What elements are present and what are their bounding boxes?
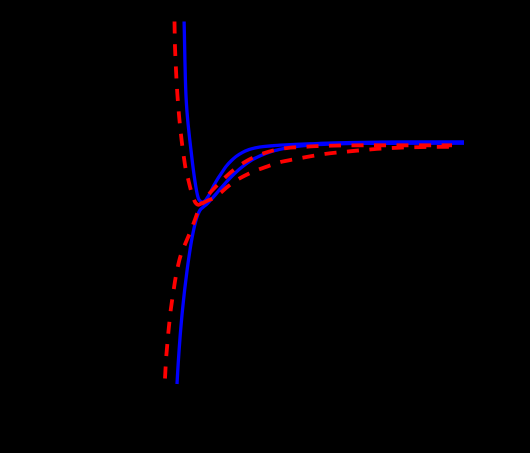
blue curve A: upper adiabatic potential (solid) [184,22,464,203]
blue curve B: lower adiabatic potential (solid) [177,143,464,384]
red curve R2: diabatic potential 2 (dashed) [165,147,452,379]
red curve R1: diabatic potential 1 (dashed) [175,22,453,205]
